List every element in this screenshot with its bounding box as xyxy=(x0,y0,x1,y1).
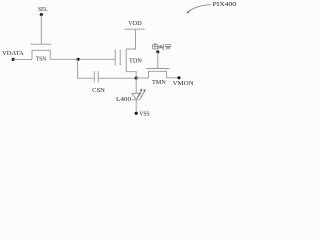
wire LED anode down xyxy=(135,78,137,93)
svg-text:VSS: VSS xyxy=(139,110,150,117)
transistor TDN channel plate xyxy=(119,50,121,66)
wire VDD stem xyxy=(126,29,135,49)
transistor TSN channel staple xyxy=(32,50,50,59)
wire SEL stem xyxy=(40,15,42,45)
wire monitor stem to TMN gate xyxy=(157,52,159,69)
node VDATA terminal dot xyxy=(12,58,15,61)
svg-text:VDATA: VDATA xyxy=(2,50,24,57)
wire TDN source jog to junction xyxy=(126,72,136,78)
node junction dot LED anode xyxy=(135,77,138,80)
transistor TDN electrode line xyxy=(125,49,127,72)
transistor TMN gate bar xyxy=(147,68,170,70)
node VMON terminal dot xyxy=(177,76,180,79)
wire TSN drain to TDN gate xyxy=(50,58,115,60)
power VDD bar xyxy=(125,28,145,30)
LED emission arrow 2 xyxy=(140,90,145,98)
node VSS terminal dot xyxy=(135,112,138,115)
transistor TDN gate plate xyxy=(114,50,116,66)
diode L400 triangle xyxy=(132,93,141,99)
svg-text:VMON: VMON xyxy=(173,80,195,87)
capacitor CSN right plate xyxy=(97,71,99,82)
label monitor (Chinese characters) xyxy=(152,44,170,49)
wire VDATA to TSN source xyxy=(13,58,32,60)
wire LED cathode to VSS xyxy=(135,100,137,114)
transistor TMN channel staple xyxy=(149,71,167,78)
callout PIX400 leader arrow xyxy=(187,5,211,14)
svg-text:VDD: VDD xyxy=(128,20,142,27)
node monitor terminal dot xyxy=(156,50,159,53)
svg-text:CSN: CSN xyxy=(92,87,105,94)
LED emission arrow 1 xyxy=(137,89,146,99)
wire CSN branch down xyxy=(78,59,95,78)
svg-text:TDN: TDN xyxy=(129,57,143,64)
wire TMN source to VMON xyxy=(167,77,180,79)
node SEL terminal dot xyxy=(40,13,43,16)
svg-text:L400: L400 xyxy=(116,96,131,103)
svg-text:PIX400: PIX400 xyxy=(213,1,237,8)
wire CSN to LED junction xyxy=(98,77,136,79)
diode L400 cathode bar xyxy=(132,99,140,101)
transistor TSN gate bar xyxy=(31,43,52,45)
svg-text:TSN: TSN xyxy=(36,56,47,63)
svg-text:SEL: SEL xyxy=(38,6,48,13)
wire junction to TMN drain xyxy=(136,77,148,79)
node junction dot CSN branch xyxy=(77,58,80,61)
svg-text:TMN: TMN xyxy=(152,79,166,86)
capacitor CSN left plate xyxy=(93,71,95,82)
